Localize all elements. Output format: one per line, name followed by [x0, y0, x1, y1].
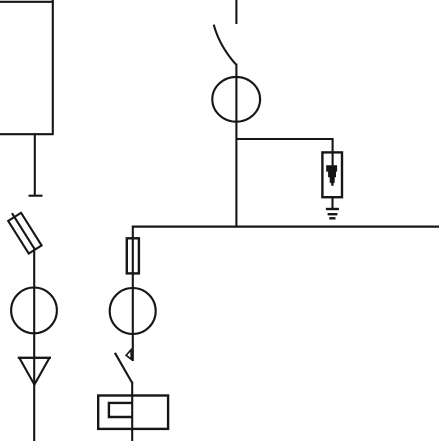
surge arrester box	[322, 152, 342, 197]
instrument circle middle meter	[110, 288, 156, 334]
wire drop to cutout top contact	[34, 133, 36, 194]
fuse cutout F1 (open, tilted)	[8, 213, 41, 254]
switch blade	[115, 353, 132, 383]
wire switch to device box	[131, 382, 133, 441]
wire branch to surge arrester	[236, 138, 333, 140]
arrester arrow filled	[326, 165, 337, 186]
wire through feeder meter down to bus	[235, 64, 237, 227]
bus main horizontal	[132, 226, 439, 228]
wire arrester drop	[332, 138, 334, 166]
wire top-left incoming horizontal	[0, 1, 54, 3]
wire left horizontal to edge	[0, 133, 54, 135]
wire bus drop through fuse and meter	[132, 227, 134, 361]
wire cutout to cable end	[33, 247, 35, 441]
cutout top contact bar	[29, 195, 43, 197]
wire arrester to ground	[331, 197, 333, 209]
instrument circle left meter	[11, 288, 57, 334]
disconnector blade open	[214, 25, 236, 65]
cable termination triangle	[18, 358, 51, 385]
fuse F2	[127, 238, 139, 273]
instrument circle feeder meter	[212, 77, 260, 122]
switch contact triangle	[126, 350, 131, 359]
ground symbol	[326, 209, 339, 218]
wire top-center stub	[235, 0, 237, 24]
device box	[98, 396, 168, 429]
wire left feeder vertical	[52, 0, 54, 134]
inner contact bracket	[109, 403, 132, 417]
